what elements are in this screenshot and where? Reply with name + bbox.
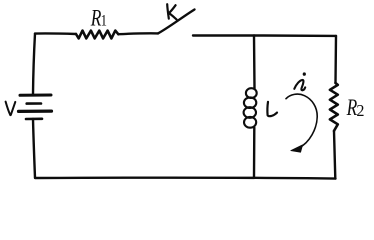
label V xyxy=(6,102,16,116)
svg-text:2: 2 xyxy=(356,101,364,120)
wire switch right terminal to top-right corner xyxy=(193,34,336,37)
label L xyxy=(267,102,277,116)
inductor L coil xyxy=(246,88,257,98)
label i (script) xyxy=(294,80,305,90)
current arrowhead xyxy=(291,145,303,152)
wire middle branch upper xyxy=(253,36,256,89)
wire top-left horizontal segment xyxy=(35,32,76,35)
resistor R2 xyxy=(330,83,338,131)
wire middle branch lower xyxy=(253,128,256,178)
wire right vertical upper xyxy=(334,36,337,83)
label K xyxy=(167,4,176,19)
battery V plate long top xyxy=(20,94,51,97)
wire right vertical lower xyxy=(334,131,335,179)
svg-text:1: 1 xyxy=(101,12,107,29)
battery V plate short xyxy=(27,102,41,105)
resistor R1 xyxy=(76,31,118,39)
battery V plate long lower xyxy=(19,109,52,113)
switch K blade xyxy=(158,10,195,34)
wire battery to bottom-left corner xyxy=(33,119,35,178)
wire R1 to switch xyxy=(118,32,158,35)
wire left vertical (top-left corner down to battery) xyxy=(33,34,35,94)
current arrow arc xyxy=(286,94,317,148)
battery V plate short bottom xyxy=(26,118,42,121)
wire bottom horizontal xyxy=(35,176,336,179)
